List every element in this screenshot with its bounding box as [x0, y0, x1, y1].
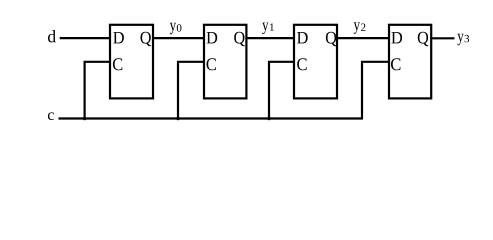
- U2 pin C label: [207, 58, 216, 70]
- net y1 label: [262, 23, 274, 34]
- wire clock line c: [59, 117, 364, 119]
- net y2 label: [354, 22, 366, 33]
- U4 pin D label: [391, 32, 402, 43]
- U4 pin Q label: [418, 32, 429, 46]
- wire U2 C stub and riser to clock: [178, 62, 204, 119]
- flip-flop U3 box: [294, 25, 337, 99]
- net y0 label: [170, 23, 182, 34]
- U3 pin D label: [297, 32, 308, 43]
- junction dot U3 clock tap: [267, 117, 270, 120]
- wire U3 C stub and riser to clock: [269, 62, 294, 119]
- wire d input to U1 D: [60, 37, 110, 39]
- junction dot U2 clock tap: [176, 117, 179, 120]
- flip-flop U1 box: [110, 25, 153, 99]
- U1 pin C label: [113, 58, 122, 70]
- U4 pin C label: [391, 58, 400, 70]
- node c label: [48, 112, 54, 120]
- wire U4 C stub and riser to clock: [362, 62, 389, 119]
- flip-flop U4 box: [389, 25, 431, 99]
- U2 pin D label: [207, 32, 218, 43]
- U1 pin D label: [113, 32, 124, 43]
- U3 pin C label: [297, 58, 306, 70]
- U1 pin Q label: [141, 32, 152, 46]
- junction dot U1 clock tap: [83, 117, 86, 120]
- net y3 label: [457, 34, 469, 45]
- wire U1 Q to U2 D (net y0): [153, 37, 204, 39]
- wire U1 C stub and riser to clock: [85, 62, 110, 119]
- wire U4 Q output to y3: [431, 37, 454, 39]
- U3 pin Q label: [326, 32, 337, 46]
- U2 pin Q label: [234, 32, 245, 46]
- wire U2 Q to U3 D (net y1): [246, 37, 294, 39]
- wire U3 Q to U4 D (net y2): [337, 37, 389, 39]
- flip-flop U2 box: [204, 25, 246, 99]
- node d label: [48, 30, 56, 42]
